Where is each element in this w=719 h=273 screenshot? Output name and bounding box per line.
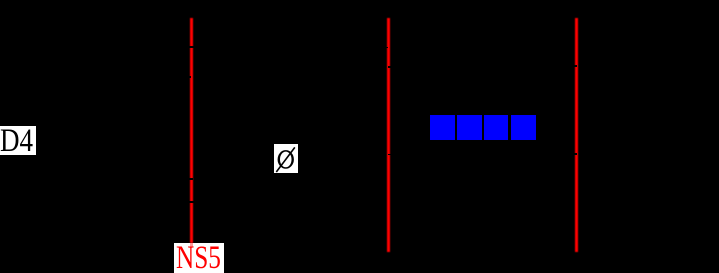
NS5 brane 1 (red vertical line) <box>190 18 193 244</box>
phi glyph (slashed circle) <box>274 144 298 174</box>
NS5 brane 3 (red vertical line) <box>575 18 578 252</box>
D4 label text <box>0 125 33 158</box>
red line stub fading into NS5 box <box>190 243 193 247</box>
D4 crossing tick on line 1 (y=202) <box>188 201 196 203</box>
phi label box <box>274 144 298 173</box>
D4 ending tick on line 2 (y=67, right) <box>388 66 391 68</box>
NS5 label box <box>174 243 224 273</box>
D4 crossing tick on line 1 (y=47) <box>189 46 194 48</box>
NS5 label text <box>176 242 221 273</box>
D4 ending tick on line 2 (y=47, left) <box>385 47 388 49</box>
D4 ending tick on line 3 (y=66, left) <box>574 65 577 67</box>
D4 branes stack (4 blue squares) <box>430 115 455 141</box>
D4 label box <box>0 126 36 155</box>
NS5 brane 2 (red vertical line) <box>387 18 390 252</box>
D4 ending tick on line 1 (y=77, left) <box>188 76 191 78</box>
D4 ending tick on line 2 (y=154, right) <box>388 154 391 156</box>
D4 crossing tick on line 1 (y=179) <box>189 178 194 180</box>
D4 ending tick on line 3 (y=154, left) <box>574 153 577 155</box>
